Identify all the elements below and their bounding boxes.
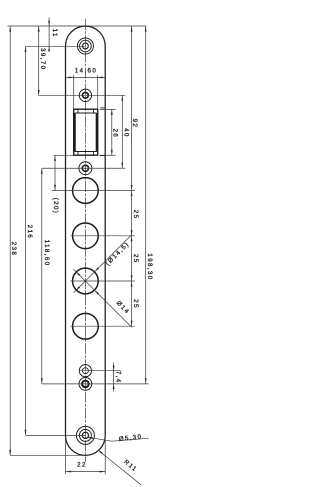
svg-text:238: 238 (10, 242, 17, 256)
svg-text:25: 25 (132, 210, 139, 220)
leader R11 (98, 450, 141, 485)
svg-text:7,4: 7,4 (114, 371, 121, 384)
small hole C (79, 378, 92, 391)
leader O14 through circle 3 (74, 269, 132, 327)
svg-text:Ø5,30: Ø5,30 (118, 433, 142, 443)
cutout top notch (75, 109, 96, 113)
svg-text:(20): (20) (52, 198, 59, 215)
svg-text:26: 26 (112, 129, 119, 139)
hole 2 (79, 89, 91, 101)
cutout bottom notch (75, 152, 96, 156)
bottom screw hole (76, 426, 94, 444)
top screw hole (77, 38, 93, 54)
svg-text:216: 216 (26, 225, 33, 239)
svg-text:25: 25 (132, 254, 139, 264)
svg-text:92: 92 (131, 119, 138, 129)
lip stubs at right edge (100, 107, 105, 109)
svg-text:25: 25 (132, 299, 139, 309)
svg-text:11: 11 (51, 29, 58, 38)
latch cutout outer rect (74, 109, 98, 155)
small hole A (79, 162, 92, 175)
svg-text:118,60: 118,60 (43, 240, 50, 267)
svg-text:22: 22 (77, 462, 87, 469)
big circle 2 (73, 223, 99, 249)
leader O5,30 (88, 437, 149, 441)
svg-text:198,30: 198,30 (146, 253, 153, 280)
cutout middle band (73, 113, 76, 152)
small hole B (79, 365, 91, 377)
svg-text:14,60: 14,60 (75, 67, 97, 74)
svg-text:Ø14: Ø14 (115, 300, 131, 316)
svg-text:39,70: 39,70 (39, 48, 46, 70)
big circle 1 (73, 178, 99, 204)
svg-text:(Ø14,5): (Ø14,5) (104, 241, 131, 268)
extension lines (8, 26, 149, 474)
dimension lines (10, 18, 146, 472)
big circle 4 (73, 313, 99, 339)
big circle 3 (73, 268, 99, 294)
leader (O14,5) through circle 3 (74, 235, 132, 293)
arrowheads (9, 21, 146, 473)
svg-text:40: 40 (123, 128, 130, 138)
plate outline (66, 26, 106, 455)
centerline (84, 19, 86, 462)
